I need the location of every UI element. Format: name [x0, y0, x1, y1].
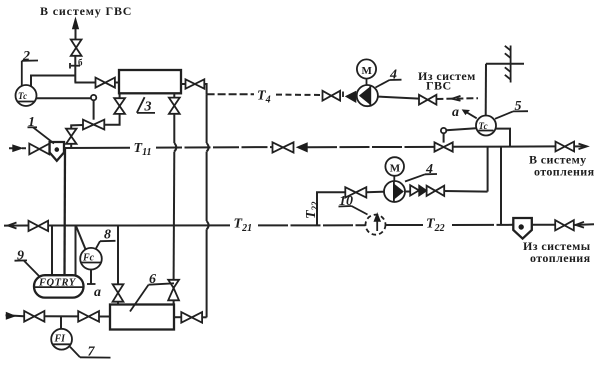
- label 7: [70, 345, 111, 360]
- label 6: [130, 272, 174, 312]
- pipe T22 continues: [452, 224, 513, 226]
- wire pump 4 outlet: [378, 97, 419, 99]
- label 10: [339, 194, 368, 215]
- wire riser HX3 right port down: [173, 93, 175, 97]
- mud filter (pentagon) on T22 inlet: [513, 218, 532, 239]
- riser (HX6 to HX3 / T4) with crossing bumps: [207, 94, 209, 317]
- label 9: [15, 249, 40, 277]
- pipe T11 continues: [156, 146, 273, 149]
- label 4 (top pump): [376, 68, 402, 88]
- valve on T21 outlet: [29, 221, 49, 231]
- valve before heating system outlet: [556, 142, 575, 152]
- label 3: [137, 97, 155, 114]
- svg-text:5: 5: [515, 99, 522, 114]
- pump 4 (circulation DHW): [357, 85, 378, 106]
- check valve (filled) on T11: [298, 143, 308, 151]
- wire impulse line to heat meter right: [75, 226, 77, 277]
- valve on HX3 inlet: [96, 78, 115, 88]
- pipe T22: [386, 224, 424, 226]
- pipe T21 with left arrow: [4, 223, 29, 229]
- wire jog from controller 5 to heating line: [496, 129, 510, 147]
- svg-text:М: М: [362, 65, 373, 77]
- node small circle on heating control valve: [441, 128, 446, 133]
- svg-text:отопления: отопления: [534, 165, 595, 179]
- svg-text:б: б: [78, 58, 83, 68]
- valve at mixing pump outlet: [427, 186, 445, 196]
- wire: [117, 302, 119, 305]
- label 5: [495, 99, 528, 119]
- label Тз (rotated) at riser: [70, 58, 83, 69]
- check valve below HX3 right port: [169, 98, 180, 114]
- arrow to DHW system (up): [73, 19, 78, 40]
- node small circle sensor tap: [91, 95, 96, 100]
- check valve (hourglass) above T11 tap: [66, 129, 77, 144]
- pipe T11 to heating system: [453, 145, 556, 147]
- svg-text:7: 7: [88, 345, 96, 360]
- svg-text:4: 4: [389, 68, 397, 83]
- wire charging line right: [104, 114, 119, 125]
- pipe T11 main line: [64, 147, 130, 149]
- valve on T11 inlet: [29, 144, 49, 155]
- valve before HX6: [78, 311, 99, 322]
- wire sensor riser from controller 5 to T22: [500, 146, 502, 225]
- wire DHW riser: [74, 56, 76, 83]
- svg-text:отопления: отопления: [530, 251, 591, 265]
- heat exchanger 6 (box): [110, 305, 174, 330]
- check valve at mixing pump outlet: [405, 185, 427, 196]
- arrow from heating system: [574, 222, 594, 228]
- svg-text:а: а: [94, 285, 101, 300]
- flow indicator 7 (FI): [51, 329, 72, 350]
- wire stem to flow indicator 7: [60, 316, 62, 329]
- control valve on heating supply (with stem): [435, 142, 453, 151]
- wire valve stem: [443, 133, 445, 142]
- pipe T11 left inlet with arrow: [9, 145, 29, 151]
- valve on DHW inlet line: [419, 95, 436, 105]
- valve on T11 mid: [273, 142, 294, 152]
- wire: [173, 300, 175, 304]
- svg-text:ГВС: ГВС: [426, 79, 452, 93]
- check valve (filled) at pump inlet: [343, 92, 356, 102]
- svg-text:а: а: [452, 105, 459, 120]
- wire T21 down to HX6 left: [117, 226, 119, 285]
- valve (vertical hourglass) on DHW riser: [71, 40, 82, 56]
- arrow to heating system: [574, 144, 587, 150]
- wire impulse line T21 to heat meter: [51, 226, 53, 277]
- svg-text:FQTRY: FQTRY: [38, 278, 77, 289]
- label 1: [28, 115, 55, 144]
- motor M of mixing pump: [385, 157, 404, 181]
- pipe T4 dashed: [276, 94, 322, 96]
- check valve above HX6 right port: [168, 280, 179, 301]
- control valve (bowtie with stem) on charging line: [83, 120, 104, 130]
- svg-text:Тс: Тс: [18, 91, 27, 101]
- controller circle 2 (Тс): [16, 85, 37, 106]
- wire stem to control valve: [93, 100, 95, 119]
- wire HX6 outlet: [174, 316, 181, 318]
- wire: [99, 316, 110, 318]
- pipe T22 right: [532, 224, 555, 226]
- wire to T11 junction: [70, 144, 72, 148]
- wire charging line left: [71, 125, 83, 129]
- mud filter 1 (pentagon): [50, 142, 64, 161]
- svg-text:4: 4: [425, 162, 433, 177]
- valve before pump 4: [323, 91, 341, 101]
- label 4 (mixing pump): [405, 162, 437, 182]
- svg-text:Тс: Тс: [479, 121, 488, 131]
- pipe cold water inlet with arrow: [6, 313, 25, 319]
- check valve above HX6 left port: [113, 284, 124, 301]
- valve on T22 inlet: [555, 220, 574, 230]
- wire: [115, 82, 119, 84]
- controller circle 5 (Тс): [476, 116, 496, 136]
- wall bracket (outdoor sensor): [505, 46, 511, 83]
- svg-text:Fс: Fс: [82, 253, 95, 264]
- wire to riser: [202, 316, 207, 318]
- label 8: [96, 228, 116, 249]
- wire dashed from DHW systems with flow arrow: [436, 96, 478, 101]
- heat exchanger 3 (box): [119, 70, 181, 93]
- pipe T21 continues: [258, 224, 366, 226]
- wire sensor riser to controller 5: [485, 64, 487, 116]
- wire corner to riser: [204, 84, 206, 94]
- wire diagonal to flow controller 8: [76, 226, 86, 250]
- valve on cold water inlet: [24, 311, 44, 322]
- svg-text:FI: FI: [54, 334, 67, 345]
- valve after HX6: [181, 312, 202, 323]
- pipe T4: [207, 93, 254, 95]
- wire: [366, 191, 384, 194]
- pipe T11 continues: [307, 146, 435, 148]
- wire mixing pump branch corner: [317, 192, 345, 225]
- svg-text:3: 3: [144, 100, 152, 115]
- wire impulse line T11 to heat meter: [63, 148, 66, 276]
- heat meter 9 (FQTRY): [34, 275, 84, 297]
- valve right of HX3: [186, 79, 205, 88]
- flow controller 8 (Fc): [80, 248, 102, 270]
- label 2: [22, 49, 38, 87]
- svg-text:2: 2: [22, 49, 30, 64]
- pipe T21: [48, 224, 230, 226]
- signal a output of Fc: [87, 270, 101, 301]
- wire sensor impulse line from circle 2: [37, 97, 92, 99]
- wire controller 5 to valve sensor: [446, 128, 476, 130]
- svg-text:В систему ГВС: В систему ГВС: [40, 4, 132, 18]
- flow regulator 10 (dashed circle with up arrow): [366, 214, 386, 235]
- pump 4 (mixing): [384, 181, 405, 202]
- signal a arrow at controller 5: [452, 105, 477, 120]
- check valve (hourglass) below HX3 left port: [114, 98, 125, 114]
- wire HX3 left port: [119, 93, 121, 98]
- wire outdoor sensor line: [486, 63, 524, 65]
- wire: [44, 315, 78, 317]
- wire to supply riser: [444, 190, 487, 193]
- wire HX3 right port: [181, 83, 186, 85]
- wire riser continues with bump at T11: [174, 114, 177, 280]
- wire HX3 left inlet pipe: [75, 82, 96, 84]
- motor M of pump 4: [357, 59, 376, 85]
- valve before mixing pump: [345, 187, 366, 197]
- wire DHW sensor pipe: [31, 76, 75, 87]
- svg-text:М: М: [390, 162, 401, 174]
- wire riser to mixing pump branch: [487, 146, 489, 191]
